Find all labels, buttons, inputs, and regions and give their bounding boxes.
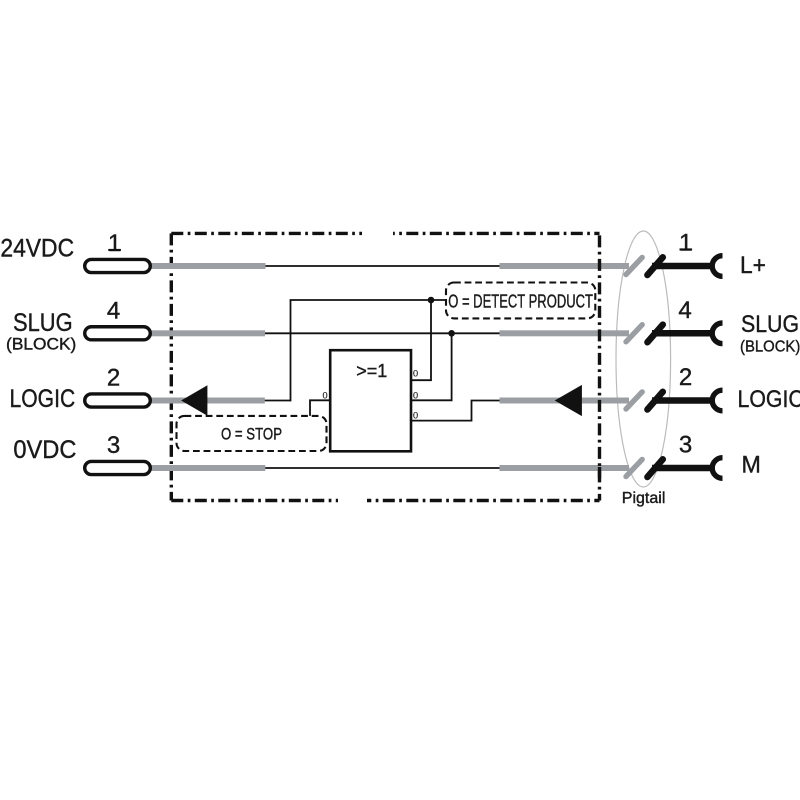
arrow left on LOGIC row: [181, 385, 207, 416]
svg-text:3: 3: [107, 432, 120, 459]
svg-text:M: M: [742, 451, 761, 479]
wire 0VDC row (thin): [152, 467, 505, 469]
connector L+ (slash, line, hook): [647, 256, 722, 277]
gray wire SLUG left: [151, 330, 266, 336]
pigtail gray slash row 2: [626, 325, 642, 342]
wire LOGIC row left segment: [153, 400, 291, 402]
gray wire LOGIC right: [500, 398, 630, 404]
gray wire 0VDC right: [500, 465, 630, 471]
svg-text:2: 2: [107, 364, 120, 391]
wire SLUG row (thin): [152, 332, 505, 334]
wire vertical LOGIC-to-annotation: [290, 300, 292, 401]
terminal oval pin 4 (SLUG): [85, 327, 151, 340]
pin number 2 left: [107, 364, 120, 391]
pigtail gray slash row 1: [626, 257, 642, 274]
annotation box 0 = DETECT PRODUCT: [446, 283, 595, 319]
svg-text:4: 4: [678, 297, 691, 324]
pigtail ellipse: [616, 231, 671, 487]
svg-text:>=1: >=1: [356, 361, 387, 381]
svg-text:LOGIC: LOGIC: [738, 384, 800, 412]
node junction dot on annotation line: [428, 297, 435, 304]
label (BLOCK) left: [6, 335, 76, 354]
svg-text:0: 0: [413, 369, 418, 379]
svg-text:L+: L+: [740, 252, 766, 279]
gray wire SLUG right: [500, 330, 630, 336]
pin label 0 right pin 2: [413, 391, 418, 401]
connector M (slash, line, hook): [647, 458, 722, 479]
svg-text:(BLOCK): (BLOCK): [740, 338, 800, 356]
connector LOGIC right (slash, line, hook): [647, 390, 722, 411]
gray wire 24VDC left: [151, 263, 266, 269]
svg-text:0: 0: [413, 391, 418, 401]
label SLUG right: [741, 309, 799, 337]
terminal oval pin 2 (LOGIC): [85, 394, 151, 407]
terminal oval pin 3 (0VDC): [85, 461, 151, 474]
label (BLOCK) right: [740, 338, 800, 356]
OR gate label >=1: [356, 361, 387, 381]
pigtail gray slash row 3: [626, 392, 642, 409]
svg-text:4: 4: [107, 297, 120, 324]
gray wire 0VDC left: [151, 465, 266, 471]
gray wire LOGIC left: [151, 398, 265, 404]
label 0VDC: [13, 437, 76, 465]
wire gate left input pin from STOP box: [310, 400, 330, 416]
svg-text:SLUG: SLUG: [741, 309, 799, 337]
pin number 1 left: [108, 230, 121, 257]
svg-text:(BLOCK): (BLOCK): [6, 335, 76, 354]
wire gate input pin 2 from SLUG node: [411, 333, 452, 401]
svg-text:0VDC: 0VDC: [13, 437, 76, 465]
annotation box 0 = STOP: [177, 416, 327, 451]
svg-text:3: 3: [679, 432, 692, 459]
svg-text:24VDC: 24VDC: [0, 235, 74, 263]
gray wire 24VDC right: [500, 263, 630, 269]
pin label 0 left input: [322, 390, 327, 400]
wire 24VDC row (thin): [152, 265, 505, 267]
label L+: [740, 252, 766, 279]
label Pigtail: [622, 490, 666, 507]
pin number 1 right: [679, 230, 692, 257]
pin number 4 right: [678, 297, 691, 324]
svg-text:Pigtail: Pigtail: [622, 490, 666, 507]
svg-text:1: 1: [108, 230, 121, 257]
svg-text:2: 2: [679, 364, 692, 391]
pin number 2 right: [679, 364, 692, 391]
pin label 0 right pin 1: [413, 369, 418, 379]
pigtail gray slash row 4: [626, 459, 642, 476]
svg-text:1: 1: [679, 230, 692, 257]
arrow right on LOGIC row: [555, 385, 582, 416]
pin label 0 right pin 3: [413, 411, 418, 421]
connector SLUG right (slash, line, hook): [647, 323, 722, 344]
pin number 3 right: [679, 432, 692, 459]
label SLUG left: [13, 309, 73, 337]
OR gate U1 box: [330, 350, 411, 451]
device boundary right edge (dash-dot): [598, 233, 601, 500]
svg-text:O = DETECT PRODUCT: O = DETECT PRODUCT: [448, 291, 593, 312]
label M: [742, 451, 761, 479]
pin number 3 left: [107, 432, 120, 459]
device boundary dash-dot box: [171, 229, 599, 505]
svg-text:SLUG: SLUG: [13, 309, 73, 337]
svg-text:O = STOP: O = STOP: [221, 425, 282, 444]
wire gate input pin 1 from node: [411, 299, 431, 380]
label LOGIC left: [10, 384, 76, 412]
terminal oval pin 1 (24VDC): [85, 259, 151, 272]
wire gate output pin 3 to LOGIC right: [411, 401, 556, 421]
label LOGIC right: [738, 384, 800, 412]
node junction dot on SLUG row: [448, 330, 455, 337]
svg-text:LOGIC: LOGIC: [10, 384, 76, 412]
wire annotation line to DETECT PRODUCT box: [290, 299, 446, 301]
label 24VDC: [0, 235, 74, 263]
pin number 4 left: [107, 297, 120, 324]
svg-text:0: 0: [413, 411, 418, 421]
svg-text:0: 0: [322, 390, 327, 400]
